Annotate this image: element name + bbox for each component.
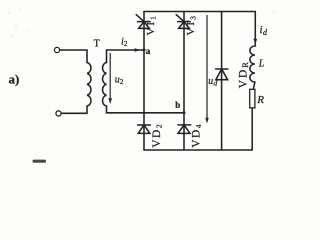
wire load branch top	[254, 12, 256, 47]
wire secondary top lead / i2 wire to node a	[107, 50, 145, 63]
wire left leg	[143, 12, 145, 151]
svg-text:i2: i2	[121, 36, 128, 47]
svg-text:a: a	[146, 46, 151, 56]
thyristor VT1	[136, 15, 150, 29]
arrow i2	[135, 48, 141, 52]
inductor L coil	[250, 46, 255, 82]
arrow u2	[108, 53, 112, 104]
freewheeling diode VDR	[216, 69, 228, 80]
svg-text:u2: u2	[115, 75, 124, 86]
thyristor VT3	[176, 15, 190, 29]
svg-text:R: R	[256, 94, 264, 106]
scan speckles	[8, 8, 275, 37]
transformer T secondary winding	[103, 63, 107, 107]
transformer T primary winding	[87, 63, 91, 107]
svg-text:a): a)	[9, 72, 20, 87]
wire secondary bottom lead to node b	[107, 106, 185, 113]
svg-text:L: L	[258, 58, 265, 69]
diode VD4	[178, 125, 191, 133]
wire right leg	[183, 12, 185, 151]
svg-text:b: b	[175, 100, 180, 110]
wire primary bottom lead	[61, 106, 87, 113]
terminal bottom-left	[56, 111, 61, 116]
wire top bus	[144, 11, 255, 13]
arrow ud	[205, 15, 209, 124]
wire bottom bus	[144, 149, 252, 151]
wire R to bottom bus	[251, 108, 253, 150]
smudge bottom	[33, 160, 47, 163]
wire freewheel branch	[221, 12, 223, 151]
node b	[183, 111, 186, 114]
node a	[143, 49, 146, 52]
wire primary top lead	[60, 50, 87, 63]
arrow id	[254, 39, 258, 45]
diode VD2	[138, 125, 151, 133]
resistor R body	[250, 89, 255, 108]
terminal top-left	[54, 47, 59, 52]
wire L to R	[253, 82, 255, 89]
svg-text:T: T	[94, 39, 100, 50]
